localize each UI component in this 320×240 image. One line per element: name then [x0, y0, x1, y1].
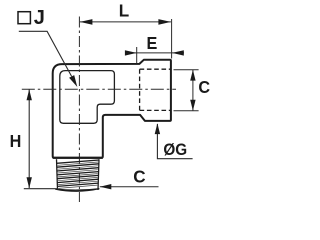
dimension H line	[28, 90, 30, 189]
leader of ØG	[157, 124, 192, 159]
block bottom face line above threads	[53, 157, 103, 159]
svg-text:H: H	[10, 131, 22, 151]
svg-text:E: E	[147, 33, 158, 53]
H bottom extension line	[24, 188, 58, 190]
body outer contour (L-shaped elbow body with right port)	[53, 60, 171, 158]
thread crest stripes	[57, 160, 99, 186]
dimension C (bottom, thread) line	[100, 186, 159, 188]
C right bottom arrowhead	[190, 100, 195, 111]
E left arrowhead	[125, 50, 137, 55]
C right top extension line	[174, 69, 199, 71]
male thread bottom end upper arc	[55, 189, 99, 190]
dimension E line	[126, 52, 185, 54]
male thread right crest edge	[98, 159, 99, 190]
H bottom arrowhead	[27, 177, 32, 188]
dimension C (right side, port bore) line	[192, 70, 194, 111]
male thread bottom end lower arc	[55, 189, 99, 192]
square symbol of J label	[18, 12, 30, 24]
svg-text:ØG: ØG	[163, 140, 187, 159]
body inner contour (stepped boss outline)	[60, 71, 115, 124]
hidden bore depth dashed line	[139, 69, 141, 110]
C right bottom extension line	[174, 110, 199, 112]
hidden bore bottom dashed line	[140, 109, 171, 111]
svg-text:C: C	[198, 77, 210, 97]
ØG arrowhead	[155, 123, 160, 134]
horizontal centerline of port (also H top extension)	[22, 88, 176, 90]
E right arrowhead	[172, 50, 184, 55]
H top arrowhead	[27, 89, 32, 100]
dimension L line	[80, 21, 171, 23]
male thread left crest edge	[57, 159, 58, 190]
svg-text:L: L	[119, 0, 130, 21]
hidden bore top dashed line	[140, 68, 171, 70]
thread root thin stripes	[58, 162, 98, 188]
E left extension line	[136, 47, 138, 64]
vertical centerline of threaded leg	[78, 17, 80, 203]
L right arrowhead	[158, 19, 171, 25]
L left arrowhead	[80, 19, 93, 25]
svg-text:C: C	[133, 166, 146, 187]
leader line of J	[19, 31, 72, 76]
C right top arrowhead	[190, 70, 195, 81]
svg-text:J: J	[34, 7, 45, 29]
leader arrowhead of J	[69, 75, 77, 87]
extension line right of L (port face extended)	[171, 19, 173, 59]
C bottom arrowhead	[100, 184, 112, 189]
